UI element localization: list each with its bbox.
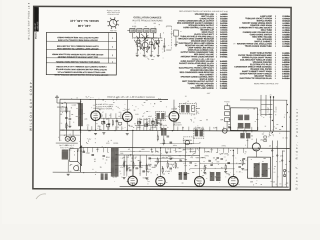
svg-text:MODEL: MODEL: [35, 31, 37, 39]
svg-text:CONNECTIONS: CONNECTIONS: [108, 14, 119, 16]
svg-text:WILCOX-GAY CORP.: WILCOX-GAY CORP.: [29, 79, 33, 131]
svg-text:4-80, 4-88: 4-80, 4-88: [77, 24, 90, 28]
svg-text:PAPER MICA CONTROL VOLUME OHMS: PAPER MICA CONTROL VOLUME OHMS CONTROL: [55, 60, 100, 63]
svg-text:TO GND: TO GND: [276, 106, 278, 113]
svg-text:10MF: 10MF: [148, 116, 152, 118]
svg-text:2: 2: [216, 56, 217, 58]
svg-text:10: 10: [117, 127, 119, 129]
svg-text:WILCOX GAY PAGE 14-8: WILCOX GAY PAGE 14-8: [27, 2, 30, 40]
svg-text:3: 3: [112, 60, 113, 62]
svg-text:15: 15: [182, 127, 184, 129]
svg-text:2MEG: 2MEG: [188, 143, 193, 145]
svg-text:33: 33: [239, 171, 241, 173]
svg-text:IN LATE PRODUCTION RUNS: IN LATE PRODUCTION RUNS: [132, 19, 163, 22]
svg-text:IF 455: IF 455: [165, 171, 170, 173]
svg-text:4-85 4-87: 4-85 4-87: [110, 30, 117, 32]
svg-text:.02: .02: [128, 149, 130, 151]
svg-text:47: 47: [135, 157, 137, 159]
svg-text:SOCKET TRANS WIRE CONTROL PILO: SOCKET TRANS WIRE CONTROL PILOT WIRE: [57, 39, 98, 42]
svg-text:50: 50: [245, 151, 247, 153]
svg-text:MORE PARTS ON PAGE 14-9: MORE PARTS ON PAGE 14-9: [254, 82, 278, 85]
svg-text:D-57024: D-57024: [220, 55, 228, 58]
svg-text:470: 470: [190, 157, 193, 159]
svg-text:3.3M: 3.3M: [139, 167, 143, 169]
svg-text:1: 1: [112, 37, 113, 39]
svg-text:.05: .05: [139, 151, 141, 153]
svg-text:.02: .02: [199, 142, 201, 144]
svg-text:.05: .05: [269, 145, 271, 147]
svg-text:.01: .01: [94, 159, 96, 161]
svg-text:70: 70: [221, 167, 223, 169]
svg-text:REPLACEMENT PARTS LIST MODELS: REPLACEMENT PARTS LIST MODELS 4-80 4-85 …: [179, 10, 228, 13]
svg-text:.05: .05: [101, 115, 103, 117]
svg-text:PHONO: PHONO: [190, 151, 197, 153]
svg-text:SOCKET TUBULAR GANG VOLUME SOC: SOCKET TUBULAR GANG VOLUME SOCKET CONTRO…: [54, 73, 109, 76]
svg-text:.05: .05: [109, 115, 111, 117]
svg-text:135: 135: [262, 133, 265, 135]
svg-text:150: 150: [62, 130, 65, 132]
svg-text:B+ 95V: B+ 95V: [176, 151, 182, 153]
svg-text:SOCKET SHAFT CABINET COIL WASH: SOCKET SHAFT CABINET COIL WASHER KNOB: [57, 47, 99, 50]
svg-text:C-94268: C-94268: [220, 87, 227, 90]
svg-text:MODELS 4-80, 4-85, 4-87, 4-88: MODELS 4-80, 4-85, 4-87, 4-88 SCHEMATIC …: [107, 96, 155, 99]
svg-text:12AT6: 12AT6: [113, 142, 118, 145]
svg-text:MODEL No. 4-85, 4-87: MODEL No. 4-85, 4-87: [69, 19, 98, 23]
svg-text:DIAL LAMP CHOKE MICA ANTENNA S: DIAL LAMP CHOKE MICA ANTENNA SPEAKER: [57, 55, 98, 58]
svg-text:.1: .1: [127, 169, 128, 171]
svg-text:.1: .1: [235, 157, 236, 159]
svg-text:1MEG: 1MEG: [222, 145, 227, 147]
svg-text:.1: .1: [123, 113, 124, 115]
svg-text:©John F. Rider, Publisher: ©John F. Rider, Publisher: [295, 107, 299, 190]
svg-text:10MF: 10MF: [173, 145, 177, 147]
svg-text:.005: .005: [216, 161, 219, 163]
svg-text:TRANS CHOKE KNOB TUBE: TRANS CHOKE KNOB TUBE: [245, 45, 273, 48]
svg-text:ELECTROLYTIC RESISTOR PLUG: ELECTROLYTIC RESISTOR PLUG: [240, 78, 272, 80]
svg-text:10: 10: [245, 131, 247, 133]
svg-text:2.2M: 2.2M: [244, 169, 248, 171]
svg-text:.02: .02: [251, 135, 253, 137]
svg-text:100: 100: [120, 153, 123, 155]
svg-text:3.3M: 3.3M: [129, 126, 133, 128]
svg-text:.005: .005: [141, 149, 144, 151]
svg-text:.05: .05: [272, 181, 274, 183]
svg-text:.05: .05: [229, 127, 231, 129]
svg-text:.02: .02: [106, 119, 108, 121]
svg-text:12SQ7: 12SQ7: [130, 173, 135, 175]
svg-text:4-87: 4-87: [207, 93, 211, 95]
svg-text:6.3: 6.3: [69, 134, 71, 136]
svg-text:D-19584: D-19584: [282, 77, 290, 80]
svg-text:.05: .05: [215, 159, 217, 161]
svg-text:.02: .02: [179, 155, 181, 157]
svg-text:OSCILLATOR CHANGES: OSCILLATOR CHANGES: [133, 16, 161, 19]
svg-text:4-80,4-85: 4-80,4-85: [37, 22, 39, 30]
svg-text:1: 1: [275, 46, 276, 48]
svg-text:150: 150: [126, 157, 129, 159]
svg-text:SOCKET VIEW OF: SOCKET VIEW OF: [107, 10, 120, 12]
svg-text:45: 45: [270, 94, 272, 96]
svg-text:33: 33: [206, 119, 208, 121]
svg-text:220: 220: [119, 112, 122, 114]
svg-text:PHONO: PHONO: [224, 101, 230, 103]
svg-text:.05: .05: [151, 51, 153, 53]
svg-text:SW: SW: [184, 159, 187, 161]
svg-text:250: 250: [260, 139, 263, 141]
svg-text:C4: C4: [150, 29, 152, 31]
svg-text:L2: L2: [137, 29, 139, 31]
svg-text:VOL: VOL: [120, 167, 123, 169]
svg-text:50L6: 50L6: [106, 157, 110, 159]
svg-text:1: 1: [275, 78, 276, 80]
svg-text:35: 35: [100, 167, 102, 169]
svg-text:VOL 2M: VOL 2M: [162, 157, 169, 159]
svg-text:OSC 1718KC: OSC 1718KC: [196, 157, 207, 159]
svg-text:15: 15: [205, 173, 207, 175]
svg-text:LOOP: LOOP: [72, 105, 76, 107]
svg-text:B: B: [160, 35, 161, 37]
svg-text:6800: 6800: [137, 127, 141, 129]
svg-text:47: 47: [102, 112, 104, 114]
svg-text:250: 250: [97, 126, 100, 128]
svg-text:2: 2: [112, 54, 113, 56]
svg-text:2.2M: 2.2M: [213, 127, 217, 129]
svg-text:SPEAKER LAMP SCREW: SPEAKER LAMP SCREW: [191, 87, 214, 90]
svg-text:C-37889: C-37889: [282, 46, 289, 48]
svg-text:IF 455: IF 455: [151, 127, 156, 129]
svg-text:1: 1: [216, 88, 217, 90]
